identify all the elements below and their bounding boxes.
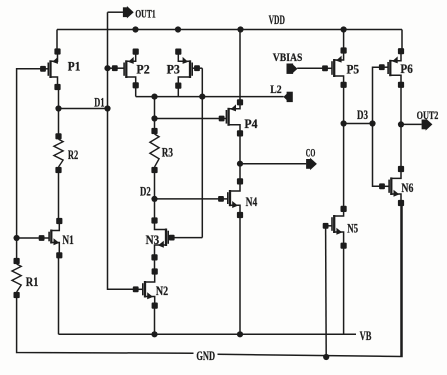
svg-text:OUT2: OUT2 <box>417 110 439 122</box>
svg-text:R2: R2 <box>68 148 78 162</box>
svg-text:N5: N5 <box>347 221 358 235</box>
node D1 junction left <box>55 105 61 111</box>
svg-text:P6: P6 <box>400 62 412 76</box>
wire OUT2 stub <box>401 123 422 125</box>
wire R3 to N3 drain <box>154 170 156 221</box>
wire CO horizontal <box>240 163 306 165</box>
terminal VBIAS <box>273 52 303 74</box>
wire P2 gate tap <box>108 67 115 69</box>
svg-text:VDD: VDD <box>269 13 285 27</box>
wire D2 horizontal <box>155 198 222 200</box>
node D2 junction <box>151 196 157 202</box>
wire R2 to N1 drain <box>58 170 60 221</box>
transistor P3 <box>167 49 200 89</box>
svg-text:D2: D2 <box>140 184 151 198</box>
terminal OUT1 <box>123 6 156 21</box>
wire N6 source down <box>400 203 402 357</box>
wire N5 source to VB <box>343 246 345 335</box>
transistor N5 <box>323 206 358 249</box>
svg-text:R3: R3 <box>162 146 173 160</box>
resistor R3 <box>150 128 173 173</box>
node VB-N4 junction <box>237 331 243 337</box>
node OUT2 junction <box>398 121 404 127</box>
wire P6 gate line <box>373 67 382 123</box>
transistor N3 <box>146 217 175 260</box>
wire P5 drain down <box>343 85 345 209</box>
terminal OUT2 <box>417 110 439 131</box>
node CO junction <box>237 161 243 167</box>
wire N1 gate tap <box>17 237 42 239</box>
wire VDD to P6 source <box>401 30 403 53</box>
node D1 junction upper <box>104 65 110 71</box>
wire OUT1/D1 vertical <box>108 12 136 289</box>
wire N2 source down <box>154 306 156 335</box>
wire P3 gate stub <box>197 67 202 69</box>
node VDD-P4 junction <box>237 26 243 32</box>
svg-text:N1: N1 <box>62 233 73 247</box>
svg-text:P5: P5 <box>347 63 360 77</box>
wire VDD to P4 source <box>239 30 241 103</box>
svg-text:OUT1: OUT1 <box>135 9 156 21</box>
node VB-N2 junction <box>151 331 157 337</box>
wire N1 source down <box>58 255 60 334</box>
svg-text:P3: P3 <box>167 63 180 77</box>
terminal CO <box>306 148 317 171</box>
wire P3-N3 gate vertical <box>201 68 203 237</box>
node VB label <box>360 329 372 343</box>
svg-text:N6: N6 <box>401 181 413 195</box>
svg-text:VBIAS: VBIAS <box>273 52 303 64</box>
wire GND rail right <box>218 203 403 357</box>
wire P3 source down <box>177 86 179 97</box>
wire VDD to P1 source <box>56 30 58 53</box>
wire VB rail <box>59 333 357 335</box>
terminal L2 <box>270 84 293 102</box>
node VDD label <box>269 13 285 27</box>
node D3 right junction <box>369 120 375 126</box>
transistor N6 <box>379 166 413 206</box>
svg-text:P4: P4 <box>244 117 258 131</box>
wire P4 drain down <box>239 133 241 181</box>
wire source node to R3 <box>154 97 156 131</box>
wire D1 horizontal <box>59 108 108 110</box>
svg-text:R1: R1 <box>26 275 39 289</box>
wire N3 source to N2 drain <box>154 257 156 271</box>
wire N5 gate to GND <box>325 226 328 357</box>
transistor P2 <box>112 49 150 89</box>
wire VDD rail <box>57 29 402 31</box>
resistor R1 <box>12 258 38 298</box>
node source-gateline junction <box>199 94 205 100</box>
svg-text:CO: CO <box>306 148 316 160</box>
transistor N2 <box>133 268 168 308</box>
wire VDD to P5 source <box>343 30 345 51</box>
wire D3 horizontal <box>344 123 373 125</box>
svg-text:GND: GND <box>196 349 215 363</box>
wire P2 source down <box>135 85 137 96</box>
svg-text:P1: P1 <box>68 60 81 74</box>
wire P4 gate line <box>155 118 222 120</box>
node VDD-P3 junction <box>175 26 181 32</box>
svg-text:N2: N2 <box>156 284 168 298</box>
svg-text:VB: VB <box>360 329 372 343</box>
node D3 label <box>357 108 368 122</box>
svg-text:N3: N3 <box>146 233 160 247</box>
wire R1 to GND <box>17 295 194 353</box>
wire N4 source down <box>239 215 241 334</box>
transistor P5 <box>322 47 359 87</box>
node D3 left junction <box>341 120 347 126</box>
resistor R2 <box>54 133 78 173</box>
wire D1 to R2 <box>58 109 60 137</box>
node D1 junction right <box>104 105 110 111</box>
svg-text:D3: D3 <box>357 108 368 122</box>
wire VBIAS to P5 gate <box>297 67 325 69</box>
wire D3 to N6 gate <box>373 124 383 187</box>
node GND-N5gate junction <box>323 354 329 360</box>
transistor N1 <box>39 218 74 259</box>
node source junction <box>151 94 157 100</box>
wire P6 drain down <box>400 85 402 169</box>
wire OUT1 stub <box>108 11 124 13</box>
transistor P4 <box>219 99 259 136</box>
wire P1 gate line <box>17 69 43 261</box>
transistor P1 <box>40 48 80 90</box>
svg-text:L2: L2 <box>270 84 282 96</box>
node GND label <box>196 349 215 363</box>
node P4 gate junction <box>151 115 157 121</box>
wire source line to L2 <box>136 96 284 98</box>
node D1 label <box>94 95 104 109</box>
svg-text:N4: N4 <box>246 195 258 209</box>
node N1 gate junction <box>14 235 20 241</box>
node VDD-P2 junction <box>132 26 138 32</box>
node D2 label <box>140 184 151 198</box>
svg-text:P2: P2 <box>136 63 149 77</box>
transistor N4 <box>218 178 258 218</box>
transistor P6 <box>379 48 413 88</box>
wire N3 gate stub <box>172 237 203 239</box>
node VDD-P5 junction <box>341 26 347 32</box>
svg-text:D1: D1 <box>94 95 104 109</box>
wire P1 drain to D1 <box>58 87 60 109</box>
